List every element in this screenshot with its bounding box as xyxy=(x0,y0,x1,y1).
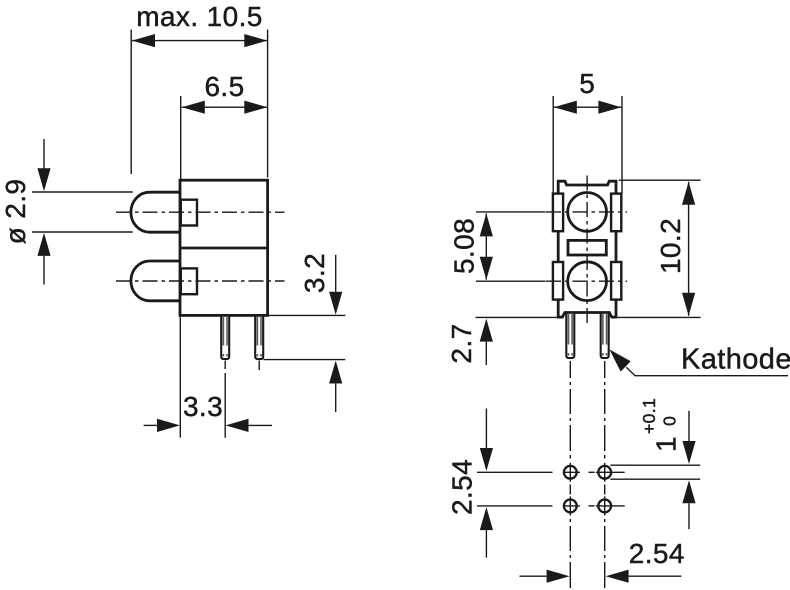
dim 1 arrow line top xyxy=(688,411,690,441)
dim 10.2 arrow down xyxy=(682,293,695,316)
pin2 centerline stub xyxy=(258,361,260,371)
right view pin left xyxy=(566,313,574,358)
svg-text:max. 10.5: max. 10.5 xyxy=(136,1,263,32)
dim 6.5 dimension line xyxy=(182,106,267,108)
Kathode arrowhead xyxy=(609,349,630,371)
LED2 dome xyxy=(131,261,181,301)
dim 2.54L arrow down xyxy=(480,448,493,471)
dim 3.3 arrow pointing left xyxy=(226,419,249,432)
dim 2.9 tangent line bottom xyxy=(32,231,133,233)
hole circle top-right xyxy=(598,466,611,479)
dim 2.54B tail left xyxy=(520,575,547,577)
dim 10.2 arrow up xyxy=(682,182,695,205)
Kathode leader line xyxy=(626,367,788,375)
left tab upper xyxy=(553,194,563,232)
left view pin 2 xyxy=(255,316,263,359)
dim 1 arrow line bottom xyxy=(688,503,690,529)
dim 5.08 arrow down xyxy=(480,257,493,280)
dim 2.9 tangent line top xyxy=(32,191,133,193)
right view vertical centerline xyxy=(586,176,588,325)
right view left edge segment 1 xyxy=(557,231,560,262)
dim 5.08 extension line bottom xyxy=(476,280,546,282)
right view left edge segment 2 xyxy=(557,300,560,318)
LED2 centerline xyxy=(116,280,285,282)
svg-text:2.54: 2.54 xyxy=(447,459,478,515)
LED1 base rectangle xyxy=(181,200,197,226)
dim 2.54B arrow pointing left xyxy=(606,570,629,583)
ground line left segment xyxy=(476,316,558,318)
center slot rectangle xyxy=(568,240,606,255)
dim 10.2 dimension line xyxy=(688,182,690,316)
dim 2.54B arrow pointing right xyxy=(547,570,570,583)
dim 5 arrow left xyxy=(554,101,577,114)
left view body divider line xyxy=(180,247,268,250)
bottom notch xyxy=(562,313,611,318)
dim max 10.5 arrow right xyxy=(244,34,267,47)
dim 3.3 arrow pointing right xyxy=(157,419,180,432)
hole circle top-left xyxy=(564,466,577,479)
left tab lower xyxy=(553,262,563,300)
right view LED2 horizontal centerline xyxy=(546,280,627,282)
svg-text:ø 2.9: ø 2.9 xyxy=(0,179,31,245)
bottom edge segment left xyxy=(557,316,563,319)
dim 3.3 pin1 centerline segment b xyxy=(224,373,226,438)
dim 5 dimension line xyxy=(554,106,622,108)
dim 3.3 tail right xyxy=(249,424,273,426)
dim 10.2 extension line top xyxy=(619,179,701,181)
right view right edge segment 1 xyxy=(615,231,618,262)
dim 3.3 tail left xyxy=(144,424,157,426)
ground line right segment xyxy=(617,316,701,318)
LED circle bottom xyxy=(568,262,607,301)
svg-text:2.7: 2.7 xyxy=(446,323,477,363)
left view pin 1 xyxy=(221,316,229,359)
LED1 centerline xyxy=(116,211,285,213)
svg-text:5.08: 5.08 xyxy=(449,218,480,274)
right tab lower xyxy=(611,262,621,300)
dim 6.5 arrow right xyxy=(244,101,267,114)
dim 2.54L arrow line bottom xyxy=(485,530,487,558)
dim 5 extension line left xyxy=(552,96,554,193)
dim 2.7 arrow up xyxy=(480,319,493,342)
hole circle bottom-right xyxy=(598,500,611,513)
bottom edge segment right xyxy=(611,316,617,319)
dim 2.9 arrow down xyxy=(37,168,50,191)
pin column centerline x=570.3 xyxy=(569,361,571,378)
dim 3.3 extension line left xyxy=(179,317,181,438)
svg-text:3.2: 3.2 xyxy=(299,253,330,293)
right tab upper xyxy=(611,194,621,232)
dim 2.7 arrow line xyxy=(485,342,487,365)
dim 3.2 arrow line bottom xyxy=(335,384,337,412)
dim 6.5 arrow left xyxy=(182,101,205,114)
LED2 base rectangle xyxy=(181,268,197,294)
right view LED1 horizontal centerline xyxy=(546,211,627,213)
dim 2.9 arrow line top xyxy=(43,139,45,169)
dim 5.08 arrow up xyxy=(480,213,493,236)
dim 2.54L arrow up xyxy=(480,507,493,530)
dim 3.2 reference line body bottom xyxy=(269,314,345,316)
hole row line y=505.9 xyxy=(477,505,553,507)
left view body outline xyxy=(180,180,268,315)
dim max 10.5 extension line left xyxy=(130,30,132,174)
svg-text:6.5: 6.5 xyxy=(204,71,244,102)
dim 2.9 arrow line bottom xyxy=(43,256,45,285)
dim 6.5 extension line left xyxy=(180,96,182,179)
dim 3.2 arrow down xyxy=(329,292,342,315)
dim 5.08 extension line top xyxy=(476,211,546,213)
right view top edge with ears xyxy=(558,181,616,194)
dim 3.2 arrow up xyxy=(329,361,342,384)
svg-text:3.3: 3.3 xyxy=(183,391,223,422)
LED1 dome xyxy=(131,192,181,232)
dim 3.2 arrow line top xyxy=(335,255,337,292)
dim 3.3 pin1 centerline segment a xyxy=(224,361,226,370)
right view pin right xyxy=(601,313,609,358)
dim 1 tangent line top xyxy=(610,464,700,466)
dim 5 extension line right xyxy=(621,96,623,193)
dim 1 tangent line bottom xyxy=(610,478,700,480)
right view right edge segment 2 xyxy=(615,300,618,318)
dim max 10.5 arrow left xyxy=(132,34,155,47)
svg-text:Kathode: Kathode xyxy=(681,344,790,376)
dim 5.08 dimension line xyxy=(485,213,487,279)
svg-text:5: 5 xyxy=(579,68,595,99)
dim 5 arrow right xyxy=(598,101,621,114)
dim 2.9 arrow up xyxy=(37,233,50,256)
LED circle top xyxy=(568,193,607,232)
hole row line y=472.3 xyxy=(477,471,553,473)
dim 1 arrow down xyxy=(682,441,695,464)
svg-text:10.2: 10.2 xyxy=(655,218,686,274)
pin column centerline x=604.7 xyxy=(604,361,606,378)
dim 3.2 reference line pin end xyxy=(264,359,346,361)
dim 1 arrow up xyxy=(682,480,695,503)
dim max 10.5 extension line right xyxy=(267,30,269,178)
dim 2.54L arrow line top xyxy=(485,409,487,449)
hole circle bottom-left xyxy=(564,500,577,513)
svg-text:2.54: 2.54 xyxy=(629,538,685,569)
dim 2.54B tail right xyxy=(629,575,682,577)
dim max 10.5 dimension line xyxy=(132,40,267,42)
